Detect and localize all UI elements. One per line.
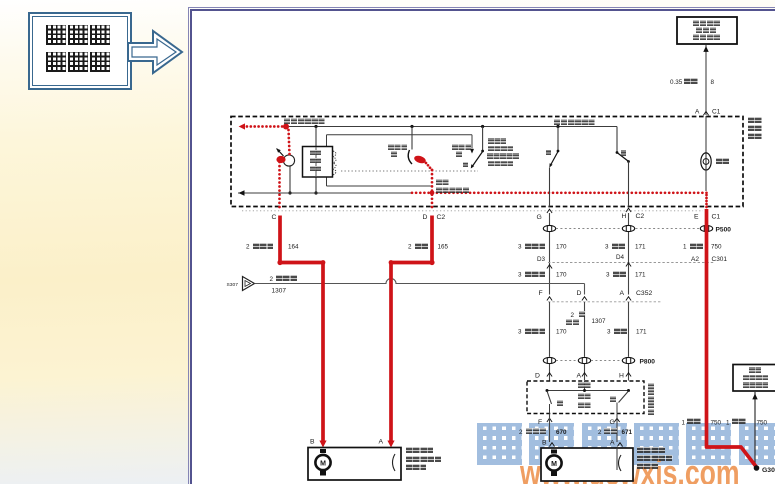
label 黑色 750	[690, 243, 704, 249]
driver collector wire	[289, 166, 291, 193]
svg-text:A: A	[695, 109, 700, 116]
wire F->P800	[549, 302, 551, 357]
pin symbol H rear	[626, 373, 631, 377]
junction module bottom	[314, 191, 317, 194]
svg-text:750: 750	[711, 244, 722, 251]
inline connector P800 wire1	[543, 357, 555, 363]
label 系统中的 gnd	[743, 375, 768, 381]
pin symbol below D3	[547, 265, 552, 269]
label 快速降下模块 line3	[310, 166, 321, 171]
label 紫色 171	[612, 243, 626, 249]
svg-text:D4: D4	[616, 254, 625, 261]
pin D at C352	[577, 290, 582, 297]
pin C	[272, 214, 277, 221]
wire P800->switch D	[549, 364, 551, 381]
down-switch contact	[627, 160, 630, 163]
label 下 sw2	[456, 151, 462, 157]
svg-text:C: C	[272, 214, 277, 221]
pin B rear motor	[542, 440, 547, 447]
svg-text:G: G	[610, 419, 615, 426]
diagram white panel	[188, 7, 775, 484]
up-switch output drop	[549, 168, 551, 207]
gauge 3 row2 right	[606, 272, 610, 279]
up-switch input drop	[557, 127, 559, 151]
arrowhead sw2 contact	[470, 149, 474, 154]
rear up blade	[547, 391, 552, 404]
svg-text:171: 171	[635, 272, 646, 279]
driver base stroke	[277, 149, 284, 157]
red corner node 2	[429, 260, 434, 265]
label 浅绿色 170 row2	[525, 271, 546, 277]
gauge 3 (purple 171)	[605, 244, 609, 251]
wire 1307 drop to C352 D	[584, 284, 586, 295]
wire module top	[315, 127, 317, 148]
circuit 750 (b)	[757, 420, 768, 427]
svg-text:164: 164	[288, 244, 299, 251]
svg-text:E: E	[694, 214, 699, 221]
label 监视	[436, 179, 449, 185]
pin symbol A rear motor	[617, 443, 622, 447]
red arrowhead left front output	[239, 123, 245, 129]
pin symbol B rear motor	[549, 443, 554, 447]
pin A at C1 top	[695, 109, 700, 116]
pin symbol D rear	[547, 373, 552, 377]
inline connector P500 on E wire	[700, 225, 712, 231]
svg-text:2: 2	[598, 429, 602, 436]
label 黑色 750b	[732, 418, 746, 424]
pin symbol A C352	[626, 297, 631, 301]
svg-text:P500: P500	[716, 227, 732, 234]
wire 671 to motor	[616, 414, 618, 443]
P500 dashed link b	[636, 228, 701, 230]
gauge 1 (black 750)	[683, 244, 687, 251]
label 右 vert	[648, 383, 654, 389]
pin symbol below D4	[626, 263, 631, 267]
svg-text:A2: A2	[691, 256, 699, 263]
pin A rear switch	[577, 373, 582, 380]
label 快速降 sw2	[452, 144, 471, 150]
svg-text:170: 170	[556, 329, 567, 336]
wire 1307 horizontal	[255, 279, 585, 284]
red dotted sw1 to output	[425, 162, 434, 172]
arrowhead up into ground box	[752, 394, 757, 400]
red junction top	[283, 124, 289, 130]
label 右后车窗输出	[554, 119, 595, 125]
connector P500 label	[716, 227, 732, 234]
connector P800 label	[640, 359, 656, 366]
red corner node 4	[389, 260, 394, 265]
label 1 black 750 (a)	[682, 420, 686, 427]
circuit 750 (a)	[711, 420, 722, 427]
label 深蓝色 1307	[276, 275, 297, 281]
label 后 vert	[648, 389, 654, 395]
connector C1 top	[712, 109, 721, 116]
label callout char row2-1	[68, 52, 88, 72]
rear bar node left	[546, 389, 549, 392]
label 锁门后 line1	[488, 138, 507, 144]
wire module bottom	[315, 177, 317, 193]
svg-text:C1: C1	[712, 214, 721, 221]
label 下 blade label	[463, 162, 468, 167]
circuit 170	[556, 244, 567, 251]
watermark site name 汽车维修技术网	[477, 423, 522, 465]
svg-text:2: 2	[519, 429, 523, 436]
sw2 blade arrowhead	[471, 164, 474, 168]
label circuit 8	[711, 79, 715, 86]
up-switch blade	[550, 152, 558, 167]
dotted mid line to module	[341, 170, 478, 172]
wire P800->switch H	[628, 364, 630, 381]
wire A->P800	[628, 302, 630, 357]
label callout char row1-2	[90, 25, 110, 45]
pin D rear switch	[535, 373, 540, 380]
svg-text:170: 170	[556, 244, 567, 251]
up blade arrowhead	[549, 163, 552, 167]
gauge 2 (1307 lower)	[571, 312, 575, 319]
gauge 2 (671)	[598, 429, 602, 436]
svg-text:A: A	[610, 440, 615, 447]
svg-text:D3: D3	[537, 256, 546, 263]
pin G	[537, 214, 542, 221]
pin H rear switch	[619, 373, 624, 380]
red corner node 1	[277, 260, 282, 265]
label 快速降下模块 line2	[310, 158, 321, 163]
driver transistor bubble	[283, 155, 294, 166]
front motor connector bracket	[393, 454, 396, 471]
connector C352 label	[636, 290, 652, 297]
label 模块降压 line4	[488, 161, 513, 167]
label 马达带ECR motor	[637, 463, 658, 469]
P800 dashed link a	[556, 360, 578, 362]
gauge 2 (dk blue 164)	[246, 244, 250, 251]
svg-text:C352: C352	[636, 290, 652, 297]
svg-text:3: 3	[518, 272, 522, 279]
gauge 2 (670)	[519, 429, 523, 436]
rear bar node right	[627, 389, 630, 392]
pin A front motor	[379, 439, 384, 446]
svg-text:171: 171	[636, 329, 647, 336]
label 深蓝色 670	[526, 428, 546, 434]
junction up-switch feed	[556, 125, 559, 128]
svg-text:D: D	[577, 290, 582, 297]
pin G rear	[610, 419, 615, 426]
svg-text:P800: P800	[640, 359, 656, 366]
label callout char row1-1	[68, 25, 88, 45]
label 左前 vert1	[748, 117, 762, 123]
svg-text:165: 165	[438, 244, 449, 251]
pin symbol H	[626, 208, 631, 212]
gauge 3 row2 left	[518, 272, 522, 279]
pin F rear	[538, 419, 542, 426]
circuit 170 row3	[556, 329, 567, 336]
pin symbol F C352	[547, 297, 552, 301]
label 开闭调节器 motor	[637, 455, 672, 461]
red dotted to pin C	[278, 161, 281, 209]
svg-text:H: H	[619, 373, 624, 380]
ground node G30	[754, 465, 760, 471]
rear motor connector bracket	[619, 455, 622, 471]
svg-text:1: 1	[726, 420, 730, 427]
wire G column upper	[549, 213, 551, 295]
grid D4	[616, 254, 625, 261]
svg-text:750: 750	[711, 420, 722, 427]
inline connector P800 wire3	[622, 357, 634, 363]
sw1 input drop	[411, 127, 413, 150]
left front window switch dashed enclosure	[231, 117, 743, 207]
red dotted wire: left front window output	[242, 125, 288, 128]
label 下 switch label	[621, 150, 627, 156]
label 浅绿色 170	[525, 243, 546, 249]
svg-text:750: 750	[757, 420, 768, 427]
red junction sw1 bottom	[430, 190, 435, 195]
svg-text:H: H	[622, 213, 627, 220]
lamp feed wire	[705, 116, 707, 153]
gauge 2 (1307)	[270, 276, 274, 283]
svg-text:G: G	[537, 214, 542, 221]
junction driver bottom	[288, 191, 291, 194]
splice S307	[243, 277, 255, 291]
svg-text:1: 1	[683, 244, 687, 251]
P500 dashed link a	[556, 228, 622, 230]
svg-text:170: 170	[556, 272, 567, 279]
ground box wire	[754, 391, 756, 466]
down-switch feed corner	[616, 127, 618, 153]
label 紫色 171 row3	[614, 328, 628, 334]
svg-text:B: B	[542, 440, 547, 447]
svg-text:C1: C1	[712, 109, 721, 116]
label callout char row1-0	[46, 25, 66, 45]
label 变光与	[696, 27, 716, 33]
black arrowhead bottom-left	[238, 190, 244, 196]
label 上 switch label	[546, 150, 552, 156]
gauge 3 (lt green 170)	[518, 244, 522, 251]
sw1 red contact blob	[413, 154, 427, 164]
circuit 671	[622, 429, 633, 436]
pin symbol F rear	[547, 418, 552, 422]
junction module feed	[314, 125, 317, 128]
connector C301 label	[712, 256, 728, 263]
label 马达带ECR motor L	[406, 464, 427, 470]
svg-text:1307: 1307	[272, 288, 287, 295]
left front window motor box	[308, 448, 401, 481]
circuit 750	[711, 244, 722, 251]
label 蓝色 1307 lower	[566, 319, 579, 325]
sw1 blade (black)	[408, 150, 412, 164]
red dotted bottom bus	[411, 191, 708, 194]
junction express-down sw1 feed	[410, 125, 413, 128]
wire: switch feed bus	[286, 126, 618, 128]
pin D	[423, 214, 428, 221]
svg-text:3: 3	[605, 244, 609, 251]
pin B front motor	[310, 439, 315, 446]
label 快速降下模块 line1	[310, 150, 321, 155]
label callout char row2-0	[46, 52, 66, 72]
rear switch A stub	[584, 381, 586, 391]
red dotted lamp to pin E	[705, 194, 708, 209]
svg-text:2: 2	[246, 244, 250, 251]
connector C2 label	[437, 214, 446, 221]
svg-text:D: D	[423, 214, 428, 221]
inline connector P800 wire2	[578, 357, 590, 363]
label 电源	[578, 382, 591, 388]
red arrowhead into motor B	[319, 441, 326, 448]
label 棕色 165	[415, 243, 429, 249]
arrowhead up into illumination box	[703, 46, 708, 52]
label 开 vert	[648, 402, 654, 408]
lamp bottom wire	[705, 170, 707, 191]
rear bar node mid	[583, 389, 586, 392]
pin E	[694, 214, 699, 221]
label 接地分配 gnd	[743, 382, 768, 388]
rear down blade	[619, 391, 629, 403]
label 输入	[578, 393, 591, 399]
label 照明 lamp label	[716, 158, 730, 164]
rear motor internal wire	[616, 448, 618, 470]
circuit 670	[556, 429, 567, 436]
svg-text:F: F	[539, 290, 543, 297]
label 左前车窗输出	[284, 118, 325, 124]
svg-text:0.35: 0.35	[670, 79, 683, 86]
pin A rear motor	[610, 440, 615, 447]
svg-text:1307: 1307	[592, 318, 607, 325]
svg-text:G30: G30	[762, 467, 775, 474]
svg-text:D: D	[535, 373, 540, 380]
module connector bumps	[333, 151, 336, 175]
label 浅绿色 170 row3	[525, 328, 546, 334]
svg-text:C2: C2	[437, 214, 446, 221]
wire gray 8 vertical	[705, 45, 707, 116]
label 电流断路器	[436, 187, 469, 193]
label 车内照明	[693, 20, 720, 26]
right rear window motor box	[541, 448, 633, 481]
inline connector P500 on G wire	[543, 225, 555, 231]
label 暗淡系统	[693, 34, 720, 40]
pin symbol G	[547, 209, 552, 213]
wire D->P800	[584, 302, 586, 357]
connector C2 right label	[636, 213, 645, 220]
circuit 171 row3	[636, 329, 647, 336]
svg-text:671: 671	[622, 429, 633, 436]
red dotted sw1 output drop	[431, 169, 434, 209]
label 关 vert	[648, 409, 654, 415]
down-switch output drop	[628, 162, 630, 207]
express-down module	[303, 147, 333, 178]
wire: switch common bottom	[238, 192, 412, 194]
red arrowhead into motor A	[387, 441, 394, 448]
svg-text:3: 3	[607, 329, 611, 336]
svg-text:2: 2	[408, 244, 412, 251]
pin symbol D C352	[582, 297, 587, 301]
svg-text:171: 171	[635, 244, 646, 251]
circuit 1307 lower	[592, 318, 607, 325]
label 左前车窗 motor	[406, 447, 434, 453]
gauge 3 row3 right	[607, 329, 611, 336]
C301 dashed line	[548, 262, 714, 264]
svg-text:S307: S307	[227, 282, 239, 288]
label 快速降 sw1	[388, 144, 407, 150]
label 紫色 171 row2	[613, 271, 627, 277]
svg-text:670: 670	[556, 429, 567, 436]
dotted connector face line	[242, 210, 703, 212]
left front motor symbol	[315, 449, 330, 476]
red corner node 3	[321, 260, 326, 265]
wire sw2 second contact drop	[471, 135, 473, 149]
label G30	[762, 467, 775, 474]
grid D3	[537, 256, 546, 263]
label 开闭调节器 motor L	[406, 456, 441, 462]
callout box 左前车窗上升	[28, 12, 132, 90]
pin H	[622, 213, 627, 220]
wire H column upper	[628, 213, 630, 295]
svg-text:M: M	[551, 461, 557, 468]
svg-text:A: A	[577, 373, 582, 380]
label 右后车窗 motor	[637, 447, 665, 453]
pin A2 at C301	[691, 256, 699, 263]
sw2 input drop	[482, 127, 484, 151]
ground distribution box	[733, 365, 775, 392]
pin F at C352	[539, 290, 543, 297]
circuit 165	[438, 244, 449, 251]
sw2 pivot	[481, 150, 484, 153]
circuit 164	[288, 244, 299, 251]
label 直到由快降 line3	[487, 153, 519, 159]
circuit 1307	[272, 288, 287, 295]
label 上 rear switch	[557, 400, 563, 406]
right rear window switch dashed box	[527, 381, 644, 414]
up-switch pivot	[557, 150, 560, 153]
label 线路 gnd	[749, 367, 761, 373]
driver arrowhead	[277, 149, 281, 153]
C352 dashed line	[548, 301, 662, 303]
red wire: circuit 164 to motor B	[280, 216, 323, 442]
box: interior illumination system	[677, 17, 737, 44]
svg-text:A: A	[620, 290, 625, 297]
label 深 1307 lower	[579, 311, 585, 317]
svg-text:M: M	[320, 461, 326, 468]
label 0.35	[670, 79, 683, 86]
svg-text:8: 8	[711, 79, 715, 86]
inner box bottom edge	[327, 185, 433, 187]
label 棕色 671	[604, 428, 617, 434]
svg-text:3: 3	[518, 244, 522, 251]
label 开关 vert3	[748, 133, 762, 139]
gauge 2 (brown 165)	[408, 244, 412, 251]
label 1 black 750 (b)	[726, 420, 730, 427]
red dotted driver feed	[287, 129, 291, 156]
label 快降位置 line2	[488, 146, 513, 152]
down-switch pivot	[616, 151, 619, 154]
junction express-down sw2 feed	[481, 125, 484, 128]
wire P800->switch A	[584, 364, 586, 381]
svg-text:C301: C301	[712, 256, 728, 263]
svg-text:C2: C2	[636, 213, 645, 220]
label 车窗 vert2	[748, 125, 762, 131]
rear switch power bar	[547, 390, 629, 392]
sw2 blade	[472, 152, 483, 168]
red driver blob	[276, 156, 285, 163]
inner box top edge	[327, 134, 473, 136]
pin symbol A rear	[582, 373, 587, 377]
svg-text:2: 2	[270, 276, 274, 283]
callout block arrow	[125, 24, 187, 80]
red wire: circuit 750 to ground	[707, 209, 757, 467]
svg-text:3: 3	[518, 329, 522, 336]
svg-text:1: 1	[682, 420, 686, 427]
connector C1 bottom label	[712, 214, 721, 221]
label 下 rear switch	[610, 396, 616, 402]
label 下 sw1	[391, 151, 397, 157]
lamp: window lockout illumination	[701, 153, 711, 170]
